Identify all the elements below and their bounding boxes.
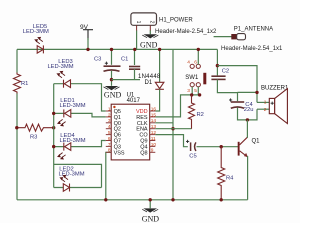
svg-text:9: 9 (151, 148, 154, 154)
svg-text:LED-3MM: LED-3MM (23, 29, 49, 35)
node C4 bottom junction (246, 118, 249, 121)
svg-text:8: 8 (108, 148, 111, 154)
wire LED2 loop top (54, 164, 102, 187)
node C2 antenna junction (216, 64, 219, 67)
wire VSS to ground rail (106, 152, 111, 200)
LED1 (64, 109, 71, 117)
LED5 (37, 45, 43, 53)
svg-text:Header-Male-2.54_1x1: Header-Male-2.54_1x1 (221, 46, 283, 52)
svg-text:C5: C5 (189, 153, 196, 159)
svg-text:1: 1 (108, 106, 111, 112)
node ENA junction (171, 127, 174, 130)
wire LED4 row (54, 141, 106, 147)
svg-text:Q8: Q8 (140, 150, 147, 156)
svg-text:VSS: VSS (114, 150, 125, 156)
node LED1 anode junction (52, 112, 55, 115)
switch SW1 (190, 64, 200, 87)
svg-text:SW1: SW1 (185, 75, 199, 81)
wire ENA pulldown vertical (172, 49, 174, 199)
transistor Q1 (238, 142, 240, 156)
svg-text:22u: 22u (244, 107, 254, 113)
wire bottom ground rail (17, 199, 248, 201)
svg-text:Header-Male-2.54_1x2: Header-Male-2.54_1x2 (155, 29, 217, 35)
wire C2 to buzzer loop (217, 66, 257, 93)
svg-text:3: 3 (187, 88, 190, 94)
svg-text:4: 4 (187, 59, 190, 65)
svg-text:3: 3 (108, 118, 111, 124)
capacitor C2 (216, 49, 218, 75)
node R3 left junction (15, 126, 18, 129)
wire Q1 collector up (246, 120, 248, 138)
svg-text:R2: R2 (197, 112, 204, 118)
svg-text:Q1: Q1 (252, 139, 261, 145)
wire ENA row to R2 (155, 128, 191, 130)
node D1 rail junction (158, 48, 161, 51)
wire LED column vertical x54 (53, 84, 55, 188)
svg-text:1: 1 (135, 21, 141, 24)
IC pin stubs left (106, 111, 111, 152)
LED2 label (58, 167, 84, 178)
svg-text:R4: R4 (226, 176, 234, 182)
IC pin labels right (136, 109, 148, 156)
LED3 emission arrows (57, 71, 65, 77)
resistor R4 (218, 147, 225, 200)
node VSS rail junction (104, 198, 107, 201)
IC pin stubs right (150, 111, 156, 152)
svg-text:6: 6 (108, 136, 111, 142)
node C3 rail junction (110, 48, 113, 51)
svg-text:D1: D1 (145, 80, 153, 86)
LED3 label (47, 59, 73, 70)
node SW1 rail junction (197, 48, 200, 51)
node C4 top junction (255, 91, 258, 94)
capacitor C3 (111, 49, 113, 64)
svg-text:R1: R1 (21, 81, 28, 87)
node SW1 bottom right junction (198, 93, 201, 96)
IC pin numbers right (151, 106, 157, 153)
svg-text:11: 11 (151, 136, 156, 142)
LED4 emission arrows (58, 153, 66, 159)
wire left rail lower (16, 94, 18, 200)
LED2 emission arrows (60, 175, 68, 181)
node C3 gnd junction (110, 78, 113, 81)
node ENA rail junction (171, 198, 174, 201)
wire C5 to Q1 base (197, 146, 239, 148)
wire SW1 top to rail (197, 49, 199, 64)
IC pin labels left (114, 109, 125, 156)
svg-text:C3: C3 (94, 57, 101, 63)
svg-text:2: 2 (149, 21, 155, 24)
LED2 (63, 184, 69, 192)
LED3 (64, 80, 71, 88)
svg-text:4: 4 (108, 124, 111, 130)
svg-text:GND: GND (140, 41, 158, 50)
LED1 emission arrows (58, 119, 66, 125)
capacitor C5 (191, 142, 196, 151)
svg-text:5: 5 (108, 130, 111, 136)
wire CO to C5 (155, 135, 188, 147)
wire left rail upper (16, 49, 18, 72)
svg-text:1: 1 (264, 100, 267, 106)
LED5 emission arrows (35, 37, 43, 43)
wire RES to SW1 (155, 95, 199, 117)
wire Q1 emitter down (247, 156, 249, 200)
IC pin numbers left (108, 106, 111, 153)
svg-text:LED-3MM: LED-3MM (59, 103, 85, 109)
resistor R1 (14, 73, 21, 94)
capacitor C1 (134, 49, 136, 65)
ground symbol mid (104, 86, 122, 99)
LED4 label (59, 133, 85, 144)
wire 9V stem (87, 38, 89, 49)
svg-text:H1_POWER: H1_POWER (159, 18, 193, 24)
node R4 bottom junction (220, 198, 223, 201)
node gnd bottom junction (149, 198, 152, 201)
resistor R2 (189, 95, 195, 129)
svg-text:GND: GND (142, 214, 160, 223)
ground symbol bottom (142, 208, 160, 223)
LED5 label (23, 24, 49, 35)
wire top rail 9V (17, 48, 217, 50)
svg-text:C2: C2 (222, 69, 229, 75)
wire LED3 row (54, 84, 106, 111)
power symbol 9V (83, 30, 93, 40)
ground symbol H1 (140, 34, 158, 50)
node LED4 anode junction (52, 145, 55, 148)
header H1_POWER (131, 13, 157, 25)
node SW1 bottom left junction (190, 93, 193, 96)
resistor R3 (17, 124, 54, 131)
wire CLK to vertical (155, 122, 173, 124)
svg-text:2: 2 (108, 112, 111, 118)
node R3 right junction (52, 126, 55, 129)
svg-text:P1_ANTENNA: P1_ANTENNA (234, 27, 273, 33)
capacitor C4 (231, 102, 244, 108)
node 9V rail junction (86, 48, 89, 51)
svg-text:LED-3MM: LED-3MM (58, 172, 84, 178)
svg-text:16: 16 (151, 106, 157, 112)
svg-text:7: 7 (108, 142, 111, 148)
LED1 label (59, 98, 85, 109)
wire SW1 bottom stubs (191, 87, 193, 95)
svg-text:C1: C1 (121, 57, 128, 63)
node R4 top junction (220, 145, 223, 148)
svg-text:R3: R3 (30, 135, 37, 141)
svg-text:2: 2 (264, 107, 267, 113)
wire H1 pin1 to rail (136, 31, 138, 50)
wire gnd spur C3-C1 (112, 79, 141, 81)
svg-text:5: 5 (194, 88, 197, 94)
wire gnd stub bottom (149, 200, 151, 209)
LED4 (64, 143, 71, 151)
diode D1 1N4448 (159, 49, 161, 82)
wire LED2 row (54, 187, 102, 189)
svg-text:LED-3MM: LED-3MM (47, 64, 73, 70)
svg-text:6: 6 (194, 59, 197, 65)
node C1 rail junction (133, 48, 136, 51)
svg-text:GND: GND (104, 90, 122, 99)
svg-text:4017: 4017 (127, 98, 141, 104)
wire H1 pin2 to gnd (149, 31, 151, 35)
wire C4 loop (237, 92, 239, 101)
wire LED1 row (54, 113, 106, 117)
svg-text:10: 10 (151, 142, 157, 148)
